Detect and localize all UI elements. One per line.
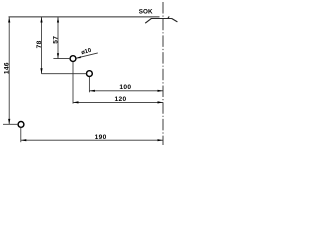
svg-text:SOK: SOK — [139, 8, 153, 15]
dimension 146 top arrow — [8, 17, 10, 22]
svg-text:100: 100 — [119, 84, 131, 91]
dimension 100 left arrow — [90, 90, 95, 92]
dimension 146 bottom arrow — [8, 119, 10, 124]
wire: level symbol plateau line — [152, 18, 172, 20]
wire: extension line from circle 1 center to 57 dimension — [53, 58, 70, 60]
hole circle 2 — [87, 71, 93, 77]
dimension 100 line — [89, 90, 163, 92]
wire: vertical from circle 3 down to 190 dimension — [20, 128, 22, 143]
hole circle 1 (ø10) — [70, 56, 76, 62]
svg-text:78: 78 — [36, 40, 43, 48]
wire: vertical from circle 1 down to 120 dimension — [72, 62, 74, 104]
dimension 100 right arrow — [158, 90, 163, 92]
wire: top object line (SOK level line) — [9, 16, 160, 18]
dimension 57 bottom arrow — [57, 53, 59, 58]
wire: vertical from circle 2 down to 100 dimension — [88, 77, 90, 93]
dimension 57 top arrow — [57, 17, 59, 22]
dimension 57 line — [57, 17, 59, 59]
wire: horizontal from 78 dimension through circle-1 drop to circle 2 — [42, 73, 87, 75]
dimension 120 right arrow — [158, 101, 163, 103]
svg-text:57: 57 — [52, 36, 59, 44]
svg-text:120: 120 — [114, 96, 126, 103]
wire: vertical centerline (dash-dot) — [162, 2, 164, 145]
dimension 120 left arrow — [73, 101, 78, 103]
node small tick above plateau — [168, 16, 169, 18]
wire: level symbol right falling diagonal — [172, 18, 178, 22]
dimension 190 right arrow — [158, 139, 163, 141]
dimension 78 bottom arrow — [40, 68, 42, 73]
dimension 190 left arrow — [21, 139, 26, 141]
wire: extension line from circle 3 to 146 dimension — [3, 123, 18, 125]
dimension 120 line — [73, 101, 163, 103]
dimension 146 line — [8, 17, 10, 124]
leader arrow at circle 1 — [76, 56, 81, 58]
svg-text:146: 146 — [3, 62, 10, 74]
leader line for ø10 — [76, 53, 98, 58]
node SOK level check mark left diagonal — [145, 18, 151, 23]
dimension 78 line — [41, 17, 43, 74]
svg-text:190: 190 — [95, 134, 107, 141]
dimension 190 line — [21, 139, 163, 141]
dimension 78 top arrow — [40, 17, 42, 22]
hole circle 3 — [18, 122, 24, 128]
